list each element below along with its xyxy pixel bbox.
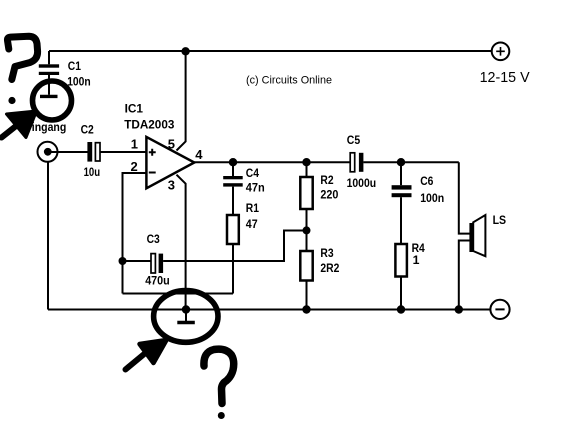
node output to R2 xyxy=(302,158,310,166)
node R4 bottom rail xyxy=(397,305,405,313)
svg-text:47n: 47n xyxy=(246,181,265,195)
wire jack to C2 xyxy=(48,151,88,153)
connector input jack xyxy=(38,142,58,162)
svg-text:1: 1 xyxy=(131,136,138,151)
svg-text:C3: C3 xyxy=(147,232,160,246)
svg-text:1000u: 1000u xyxy=(347,176,377,190)
annotation circle around C1 ground xyxy=(33,81,72,120)
svg-text:C1: C1 xyxy=(68,59,81,73)
svg-text:R3: R3 xyxy=(320,246,333,260)
wire output to speaker xyxy=(459,162,470,233)
wire output pin4 xyxy=(194,161,350,163)
svg-text:R1: R1 xyxy=(246,201,259,215)
node R3 bottom rail xyxy=(302,305,310,313)
svg-text:C2: C2 xyxy=(81,123,94,137)
svg-text:R2: R2 xyxy=(320,173,333,187)
svg-text:1: 1 xyxy=(413,253,420,267)
svg-text:220: 220 xyxy=(320,188,338,202)
resistor R3 xyxy=(300,251,312,310)
svg-text:LS: LS xyxy=(493,213,507,227)
wire jack down to bottom rail xyxy=(47,162,49,310)
resistor R2 xyxy=(300,162,312,251)
capacitor C3 xyxy=(123,231,307,274)
svg-text:2: 2 xyxy=(131,159,138,174)
capacitor C2 xyxy=(87,142,100,162)
wire feedback bottom xyxy=(123,293,234,295)
svg-text:470u: 470u xyxy=(145,274,170,288)
node R2 R3 junction xyxy=(303,226,311,234)
svg-text:(c) Circuits Online: (c) Circuits Online xyxy=(246,75,332,87)
annotation arrow bottom xyxy=(126,340,167,370)
node C3 left junction xyxy=(119,257,127,265)
svg-text:C4: C4 xyxy=(246,166,259,180)
svg-text:100n: 100n xyxy=(67,75,91,89)
terminal minus supply xyxy=(490,300,509,319)
wire speaker bottom xyxy=(459,241,470,310)
annotation circle around ground xyxy=(154,291,218,343)
svg-text:2R2: 2R2 xyxy=(320,261,339,275)
terminal plus supply xyxy=(492,43,510,61)
node output to C6 xyxy=(397,158,405,166)
wire pin2 xyxy=(123,173,146,294)
svg-text:4: 4 xyxy=(195,147,203,162)
capacitor C6 xyxy=(392,162,412,244)
annotation arrow top left xyxy=(2,111,37,138)
wire top supply rail xyxy=(49,50,492,52)
svg-text:TDA2003: TDA2003 xyxy=(124,118,174,132)
wire C2 to pin1 xyxy=(101,151,147,153)
op-amp IC1 TDA2003 xyxy=(146,137,194,188)
svg-text:IC1: IC1 xyxy=(125,102,144,116)
svg-text:12-15 V: 12-15 V xyxy=(480,70,530,86)
resistor R4 xyxy=(395,244,407,310)
wire pin3 to bottom rail xyxy=(177,175,186,310)
node output to C4 xyxy=(229,158,237,166)
wire bottom rail xyxy=(48,309,491,311)
annotation question mark top left xyxy=(7,36,37,104)
svg-text:C6: C6 xyxy=(420,174,433,188)
capacitor C1 xyxy=(39,51,59,95)
capacitor C4 xyxy=(223,162,243,215)
capacitor C5 xyxy=(350,153,459,172)
svg-text:100n: 100n xyxy=(420,191,444,205)
node ground junction bottom rail xyxy=(182,305,190,313)
ground symbol bottom xyxy=(177,310,195,323)
annotation question mark bottom xyxy=(204,349,234,419)
svg-text:5: 5 xyxy=(168,136,175,151)
svg-text:10u: 10u xyxy=(84,165,101,179)
node speaker bottom rail xyxy=(455,305,463,313)
wire pin5 to top rail xyxy=(177,51,186,150)
node junction top rail to pin5 riser xyxy=(181,47,189,55)
svg-text:3: 3 xyxy=(168,177,175,192)
ground under C1 xyxy=(40,95,58,98)
svg-text:47: 47 xyxy=(246,217,258,231)
svg-text:C5: C5 xyxy=(347,133,361,147)
resistor R1 xyxy=(227,215,239,294)
speaker LS xyxy=(469,215,485,256)
